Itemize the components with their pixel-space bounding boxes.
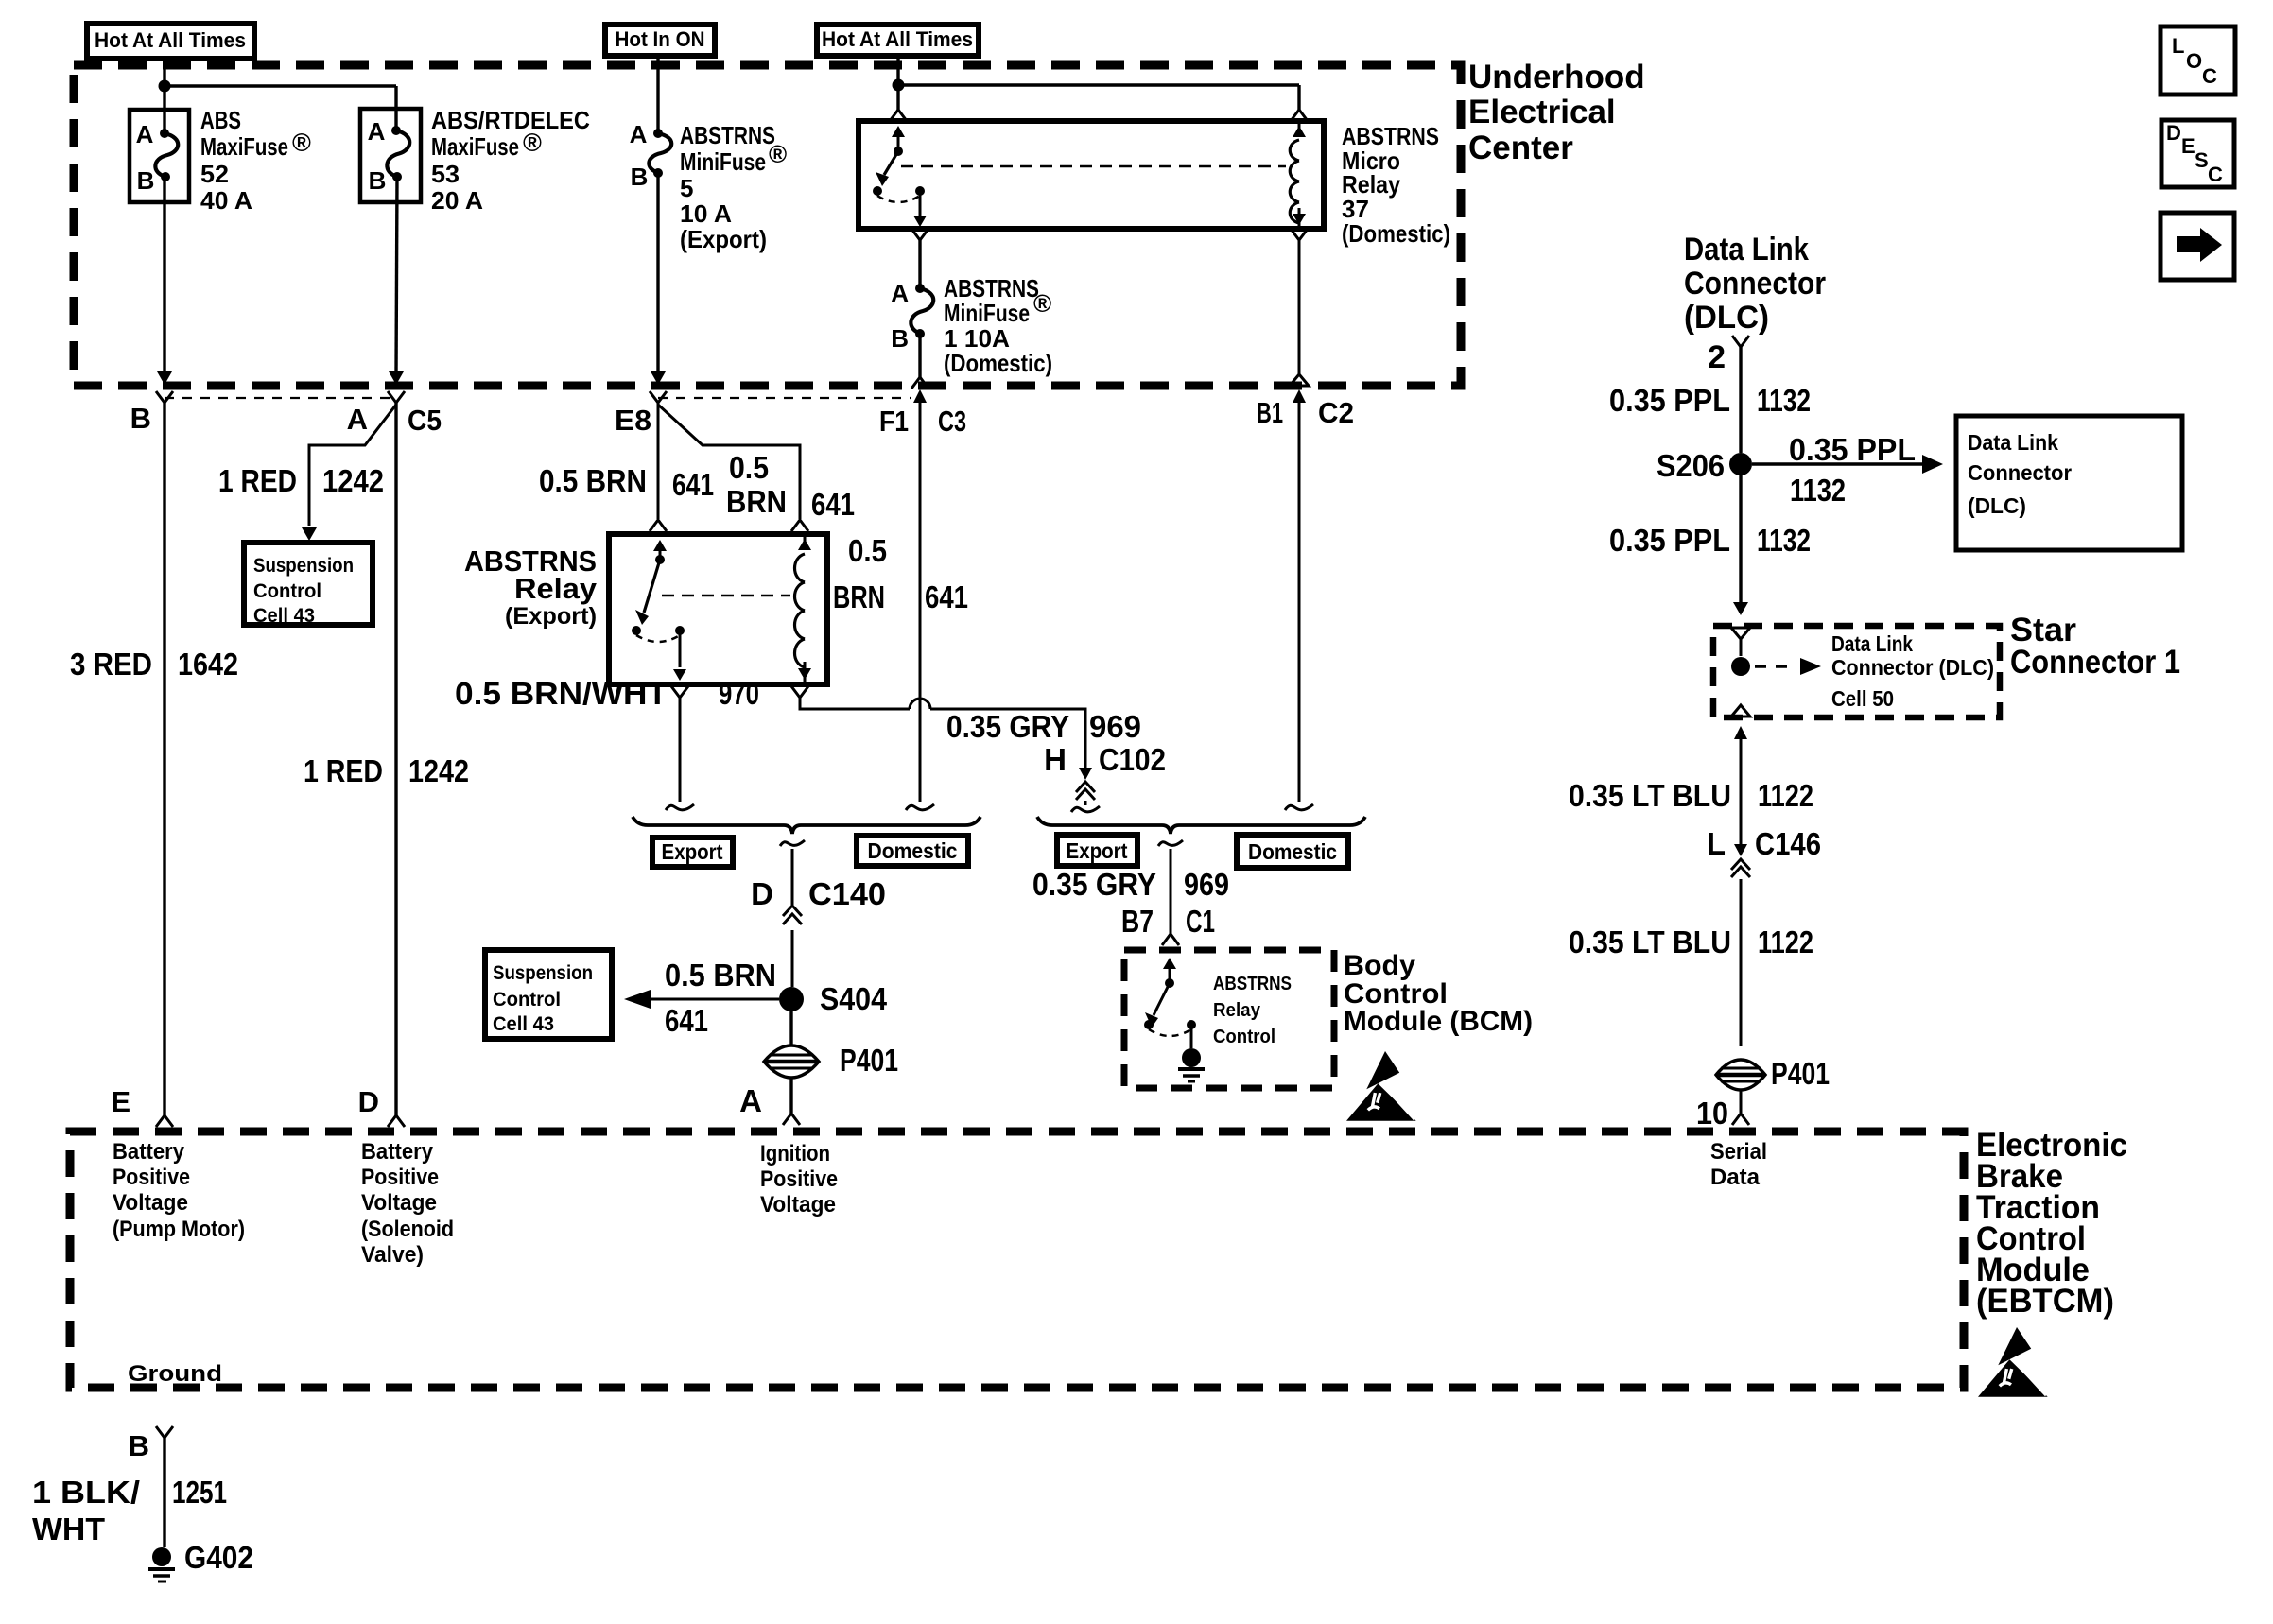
svg-text:D: D xyxy=(2166,121,2181,145)
svg-text:1 RED: 1 RED xyxy=(304,753,383,788)
svg-text:Valve): Valve) xyxy=(361,1242,424,1268)
svg-text:Underhood: Underhood xyxy=(1468,59,1645,95)
svg-text:Hot At All Times: Hot At All Times xyxy=(822,27,973,51)
svg-text:970: 970 xyxy=(719,676,759,711)
svg-text:Domestic: Domestic xyxy=(1248,839,1337,864)
svg-text:10 A: 10 A xyxy=(680,199,732,228)
svg-text:C140: C140 xyxy=(808,876,886,911)
svg-text:ABSTRNS: ABSTRNS xyxy=(1213,974,1292,994)
svg-text:3 RED: 3 RED xyxy=(70,647,152,682)
svg-text:1242: 1242 xyxy=(408,753,469,788)
svg-text:0.35 GRY: 0.35 GRY xyxy=(946,709,1069,744)
svg-text:Relay: Relay xyxy=(514,572,598,605)
svg-text:Control: Control xyxy=(493,989,561,1011)
svg-text:1122: 1122 xyxy=(1758,778,1813,813)
svg-text:Serial: Serial xyxy=(1710,1139,1767,1165)
svg-text:C5: C5 xyxy=(408,404,442,437)
svg-text:Voltage: Voltage xyxy=(760,1192,836,1218)
svg-text:1 BLK/: 1 BLK/ xyxy=(32,1475,140,1510)
svg-text:®: ® xyxy=(769,140,787,168)
svg-text:Data Link: Data Link xyxy=(1684,232,1809,268)
svg-text:P401: P401 xyxy=(1771,1056,1830,1091)
svg-text:20 A: 20 A xyxy=(431,186,483,215)
svg-text:Hot At All Times: Hot At All Times xyxy=(95,28,246,52)
svg-text:969: 969 xyxy=(1184,867,1229,902)
svg-text:ABS/RTDELEC: ABS/RTDELEC xyxy=(431,106,590,134)
svg-text:MaxiFuse: MaxiFuse xyxy=(431,132,519,161)
svg-text:1132: 1132 xyxy=(1757,383,1811,418)
svg-text:Voltage: Voltage xyxy=(113,1190,188,1216)
svg-text:S: S xyxy=(2195,148,2209,172)
svg-text:Export: Export xyxy=(662,839,723,864)
svg-text:52: 52 xyxy=(200,160,229,188)
svg-text:(Solenoid: (Solenoid xyxy=(361,1217,454,1242)
svg-text:A: A xyxy=(136,120,154,148)
svg-text:0.5: 0.5 xyxy=(848,533,887,568)
svg-text:Battery: Battery xyxy=(113,1139,185,1165)
svg-text:1251: 1251 xyxy=(172,1475,227,1510)
svg-text:0.35 GRY: 0.35 GRY xyxy=(1032,867,1156,902)
svg-text:S206: S206 xyxy=(1657,448,1725,483)
svg-text:Data: Data xyxy=(1710,1165,1761,1190)
svg-text:1132: 1132 xyxy=(1757,523,1811,558)
svg-text:B: B xyxy=(129,1429,149,1462)
svg-text:(Export): (Export) xyxy=(680,225,767,253)
svg-text:A: A xyxy=(630,120,648,148)
svg-text:Positive: Positive xyxy=(361,1165,439,1190)
svg-text:B: B xyxy=(137,166,155,195)
svg-text:Positive: Positive xyxy=(760,1166,838,1192)
svg-text:Connector: Connector xyxy=(1684,266,1826,302)
svg-text:(DLC): (DLC) xyxy=(1968,493,2026,518)
svg-text:0.35 LT BLU: 0.35 LT BLU xyxy=(1569,778,1731,813)
svg-text:641: 641 xyxy=(811,487,855,522)
svg-text:Connector 1: Connector 1 xyxy=(2010,644,2180,681)
svg-text:C: C xyxy=(2208,163,2223,186)
svg-text:(Domestic): (Domestic) xyxy=(1342,219,1450,248)
svg-text:(DLC): (DLC) xyxy=(1684,300,1769,336)
svg-text:Control: Control xyxy=(253,580,321,602)
svg-text:B: B xyxy=(369,166,387,195)
svg-text:Module (BCM): Module (BCM) xyxy=(1344,1006,1533,1037)
svg-text:(EBTCM): (EBTCM) xyxy=(1976,1283,2114,1320)
svg-text:Cell 50: Cell 50 xyxy=(1831,686,1894,711)
svg-text:40 A: 40 A xyxy=(200,186,252,215)
svg-text:Relay: Relay xyxy=(1213,1000,1261,1021)
svg-text:(Domestic): (Domestic) xyxy=(944,349,1052,377)
svg-text:Export: Export xyxy=(1067,838,1128,863)
svg-text:641: 641 xyxy=(665,1003,708,1038)
svg-text:Cell 43: Cell 43 xyxy=(493,1013,554,1035)
svg-text:MiniFuse: MiniFuse xyxy=(680,147,766,176)
svg-text:0.35 PPL: 0.35 PPL xyxy=(1609,383,1730,418)
svg-text:O: O xyxy=(2186,49,2202,73)
svg-text:C146: C146 xyxy=(1755,826,1821,861)
svg-text:ABSTRNS: ABSTRNS xyxy=(680,121,775,149)
svg-text:®: ® xyxy=(1033,289,1051,318)
svg-text:B: B xyxy=(891,324,909,353)
svg-text:Ground: Ground xyxy=(128,1361,222,1387)
svg-text:1 RED: 1 RED xyxy=(218,463,297,498)
svg-text:Connector (DLC): Connector (DLC) xyxy=(1831,655,1994,680)
svg-text:Ignition: Ignition xyxy=(760,1141,830,1166)
svg-text:1132: 1132 xyxy=(1790,473,1846,508)
svg-text:Electrical: Electrical xyxy=(1468,94,1616,130)
svg-text:P401: P401 xyxy=(840,1043,898,1078)
svg-text:G402: G402 xyxy=(184,1540,253,1575)
svg-text:B1: B1 xyxy=(1257,396,1283,429)
svg-text:(Export): (Export) xyxy=(505,603,597,630)
svg-text:Voltage: Voltage xyxy=(361,1190,437,1216)
svg-text:C: C xyxy=(2202,64,2217,88)
svg-text:C2: C2 xyxy=(1318,396,1354,429)
svg-text:MiniFuse: MiniFuse xyxy=(944,299,1030,327)
svg-text:5: 5 xyxy=(680,174,693,202)
svg-text:641: 641 xyxy=(672,467,714,502)
svg-text:Suspension: Suspension xyxy=(253,555,354,577)
svg-text:2: 2 xyxy=(1708,339,1726,375)
svg-text:D: D xyxy=(751,876,773,911)
svg-text:C102: C102 xyxy=(1099,742,1166,777)
svg-text:C1: C1 xyxy=(1186,904,1215,939)
svg-text:Positive: Positive xyxy=(113,1165,190,1190)
svg-text:1642: 1642 xyxy=(178,647,238,682)
svg-text:S404: S404 xyxy=(820,981,888,1016)
svg-text:D: D xyxy=(358,1085,379,1118)
svg-text:Cell 43: Cell 43 xyxy=(253,605,315,627)
svg-text:1242: 1242 xyxy=(322,463,384,498)
svg-text:E: E xyxy=(111,1085,130,1118)
svg-text:ABS: ABS xyxy=(200,106,241,134)
svg-text:B: B xyxy=(631,163,649,191)
svg-text:Body: Body xyxy=(1344,950,1415,981)
svg-text:0.5 BRN: 0.5 BRN xyxy=(539,463,647,498)
svg-text:Battery: Battery xyxy=(361,1139,434,1165)
svg-text:BRN: BRN xyxy=(726,484,787,519)
svg-text:A: A xyxy=(347,403,368,436)
svg-text:BRN: BRN xyxy=(833,579,885,614)
svg-text:A: A xyxy=(368,117,386,146)
svg-text:0.5 BRN: 0.5 BRN xyxy=(665,958,776,993)
svg-text:C3: C3 xyxy=(938,405,966,438)
svg-text:®: ® xyxy=(292,129,311,157)
svg-text:A: A xyxy=(891,279,909,307)
svg-text:L: L xyxy=(1707,826,1726,861)
svg-text:0.35 LT BLU: 0.35 LT BLU xyxy=(1569,924,1731,959)
svg-text:Hot In ON: Hot In ON xyxy=(616,27,705,51)
svg-text:E: E xyxy=(2181,134,2195,158)
svg-text:10: 10 xyxy=(1696,1096,1728,1131)
svg-text:MaxiFuse: MaxiFuse xyxy=(200,132,288,161)
svg-text:1122: 1122 xyxy=(1758,924,1813,959)
svg-text:Data Link: Data Link xyxy=(1968,430,2058,455)
svg-text:B7: B7 xyxy=(1121,904,1154,939)
svg-text:0.5: 0.5 xyxy=(729,450,769,485)
svg-text:L: L xyxy=(2172,34,2184,58)
svg-text:0.35 PPL: 0.35 PPL xyxy=(1609,523,1730,558)
svg-text:Connector: Connector xyxy=(1968,460,2072,485)
svg-text:0.5 BRN/WHT: 0.5 BRN/WHT xyxy=(455,676,668,711)
svg-text:A: A xyxy=(739,1083,762,1118)
svg-text:Center: Center xyxy=(1468,130,1573,166)
svg-text:Domestic: Domestic xyxy=(868,838,958,863)
svg-text:WHT: WHT xyxy=(32,1512,105,1546)
svg-text:641: 641 xyxy=(925,579,968,614)
svg-text:53: 53 xyxy=(431,160,460,188)
svg-text:0.35 PPL: 0.35 PPL xyxy=(1789,432,1916,467)
svg-text:(Pump Motor): (Pump Motor) xyxy=(113,1217,245,1242)
svg-text:E8: E8 xyxy=(615,404,651,437)
svg-text:Suspension: Suspension xyxy=(493,962,593,984)
svg-text:969: 969 xyxy=(1089,709,1141,744)
svg-text:H: H xyxy=(1044,742,1067,777)
svg-text:B: B xyxy=(130,402,151,435)
svg-text:Data Link: Data Link xyxy=(1831,631,1913,656)
svg-text:®: ® xyxy=(523,129,542,157)
svg-text:Control: Control xyxy=(1213,1027,1275,1047)
svg-text:F1: F1 xyxy=(879,405,909,438)
